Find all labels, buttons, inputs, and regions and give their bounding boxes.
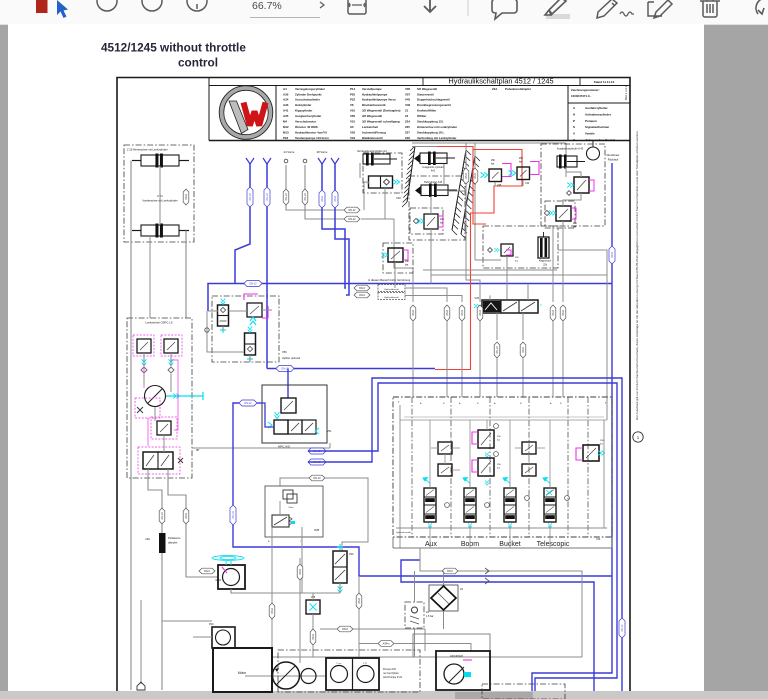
svg-text:Lenkeinheit: Lenkeinheit [362, 125, 378, 129]
svg-text:control: control [178, 56, 218, 70]
valve V45 [489, 169, 502, 182]
svg-text:21: 21 [405, 109, 409, 113]
svg-text:P14: P14 [350, 87, 356, 91]
svg-text:66.7%: 66.7% [252, 0, 282, 12]
svg-text:260: 260 [515, 257, 519, 259]
blue bus DN-10 [267, 368, 435, 370]
dashdot pumps [278, 650, 420, 692]
klapp wires [394, 262, 396, 288]
wire cyl left [130, 161, 132, 319]
svg-text:3/2 Wegeventil: 3/2 Wegeventil [362, 114, 382, 118]
cylinder Z25 [141, 155, 179, 166]
capsule ASPm [378, 641, 394, 647]
capsule DN-10 hpc [309, 475, 325, 481]
V26 wires [489, 296, 491, 301]
spool circles [445, 503, 450, 508]
blue capsule hpc drop [230, 505, 236, 525]
svg-text:Hubzylinder: Hubzylinder [295, 103, 312, 107]
svg-text:22A: 22A [405, 120, 411, 124]
svg-text:P 22: P 22 [363, 663, 368, 665]
svg-text:Rücklauf: Rücklauf [608, 158, 619, 162]
svg-text:DN-10: DN-10 [232, 511, 235, 519]
steering valve 1 [137, 339, 151, 353]
svg-text:A: A [459, 402, 461, 405]
valve V5h check [245, 333, 256, 355]
svg-text:VM5: VM5 [314, 529, 320, 532]
capsule DN-10 a [159, 508, 165, 524]
svg-text:V5h: V5h [282, 350, 287, 354]
svg-text:DN-6: DN-6 [465, 173, 468, 179]
svg-text:DN-6: DN-6 [185, 194, 188, 200]
svg-text:Pumpe P10: Pumpe P10 [383, 668, 397, 671]
pulsation damper 23A [159, 533, 166, 553]
svg-text:Filter: Filter [289, 506, 294, 509]
box Z25 Hinterachse [124, 145, 194, 242]
svg-text:P22: P22 [350, 98, 356, 102]
svg-text:bar: bar [515, 260, 518, 263]
svg-text:V51: V51 [350, 120, 356, 124]
svg-text:DN-8: DN-8 [358, 598, 361, 604]
top wires [412, 142, 566, 144]
svg-text:DN-6: DN-6 [312, 634, 315, 640]
svg-text:Hydraulikmotor 4cm³/U: Hydraulikmotor 4cm³/U [295, 130, 327, 134]
suction box [413, 634, 490, 657]
svg-text:Steckkupplung 12L: Steckkupplung 12L [417, 120, 444, 124]
svg-text:5/2 Wegeventil: 5/2 Wegeventil [417, 87, 437, 91]
blue line A [235, 163, 250, 284]
svg-text:A: A [268, 540, 270, 543]
svg-text:D: D [540, 304, 542, 307]
wire t1 down [466, 184, 480, 302]
svg-text:A: A [420, 402, 422, 405]
svg-text:M 13: M 13 [216, 579, 222, 582]
svg-text:22k: 22k [543, 264, 548, 267]
capsule DN-8 b1 [410, 305, 416, 321]
svg-text:Lenkeinheit OSPC LS: Lenkeinheit OSPC LS [145, 321, 172, 325]
end valve 230bar [583, 445, 599, 461]
svg-text:3/2 Wegeventil (Drehzapfen): 3/2 Wegeventil (Drehzapfen) [362, 109, 401, 113]
steering valve 2 [164, 339, 178, 353]
valve block frame [393, 397, 612, 537]
box Klappmotor [483, 226, 558, 268]
svg-text:250: 250 [519, 158, 524, 160]
steering check X [137, 407, 143, 413]
svg-text:H: H [573, 112, 575, 116]
svg-text:Druckbegrenzungsventil: Druckbegrenzungsventil [417, 103, 451, 107]
svg-text:bar: bar [497, 439, 500, 442]
blue line low2 [401, 560, 594, 691]
svg-text:bar: bar [600, 443, 603, 446]
spool Telescopic [544, 488, 556, 522]
svg-text:M12: M12 [283, 125, 289, 129]
svg-text:A34: A34 [283, 98, 289, 102]
svg-text:DN-6: DN-6 [447, 570, 453, 573]
A33 wires [430, 196, 432, 214]
svg-text:DN-10: DN-10 [304, 193, 307, 201]
svg-text:Hydraulikölpumpe Verza: Hydraulikölpumpe Verza [362, 98, 396, 102]
svg-text:V46: V46 [405, 103, 411, 107]
filter 24 [429, 585, 458, 611]
svg-text:Kippzylinder: Kippzylinder [295, 109, 313, 113]
capsule DN-6 left [183, 189, 189, 205]
svg-text:Hinterachse mit Lenkzylinder: Hinterachse mit Lenkzylinder [417, 125, 458, 129]
Wacker Neuson logo [222, 88, 271, 137]
blue capsule D [332, 190, 338, 208]
HPC valve row [274, 420, 288, 434]
svg-text:DN-10: DN-10 [249, 193, 252, 201]
svg-text:Klappmotor: Klappmotor [539, 260, 551, 263]
blue bottom capsule [619, 618, 625, 638]
wire a40 down [552, 321, 554, 397]
svg-text:A30: A30 [283, 92, 289, 96]
svg-text:V51: V51 [327, 430, 332, 433]
blue capsule A [247, 187, 253, 207]
steering spool [143, 452, 173, 469]
svg-text:DN-8: DN-8 [299, 569, 302, 575]
svg-text:2A: 2A [426, 611, 429, 614]
M13 wires [231, 589, 313, 593]
svg-text:V05: V05 [405, 87, 411, 91]
svg-text:DN-6: DN-6 [334, 196, 337, 202]
svg-text:250: 250 [497, 436, 501, 438]
box Hydraulikventil 1 [378, 285, 405, 292]
svg-text:Blatt 1 von 1: Blatt 1 von 1 [624, 85, 628, 100]
valve V5h pilot [247, 303, 262, 317]
valve V44 [517, 167, 530, 180]
valve A40b [545, 201, 575, 228]
capsule DN-8 b3 [459, 305, 465, 321]
box V30 [363, 153, 402, 193]
svg-text:DN-12: DN-12 [245, 402, 253, 405]
svg-text:V2b: V2b [596, 538, 601, 541]
svg-text:Ausfahrzylinder: Ausfahrzylinder [585, 106, 609, 110]
V30 wires [359, 163, 361, 178]
HPC pilot [281, 398, 296, 413]
svg-text:227: 227 [405, 130, 410, 134]
svg-text:4512/1245 without throttle: 4512/1245 without throttle [101, 41, 246, 55]
A40 wires [565, 167, 567, 177]
svg-text:A: A [550, 402, 552, 405]
svg-text:DN-10: DN-10 [285, 193, 288, 201]
motor box [213, 648, 272, 692]
steering diamond L [141, 367, 147, 373]
svg-text:bar: bar [497, 467, 500, 470]
sheet mark circled 1 [633, 432, 643, 442]
svg-text:V50: V50 [350, 114, 356, 118]
svg-text:250: 250 [497, 464, 501, 466]
blue return [532, 163, 612, 691]
blue HPC drop [287, 369, 289, 399]
V50 wires [339, 583, 341, 593]
svg-text:DN-8: DN-8 [522, 347, 525, 353]
svg-text:Z 25 Hinterachse mit Lenkzylin: Z 25 Hinterachse mit Lenkzylinder [127, 148, 168, 152]
capsule DN-8 b2 [444, 305, 450, 321]
svg-text:24 Vorne: 24 Vorne [284, 150, 295, 154]
steering relief [157, 421, 171, 435]
svg-text:Doppelrückschlagventil: Doppelrückschlagventil [417, 98, 450, 102]
svg-text:24: 24 [460, 587, 463, 591]
svg-text:Ausschubzylinder: Ausschubzylinder [295, 98, 321, 102]
blue line B [266, 163, 268, 369]
svg-text:225: 225 [405, 125, 410, 129]
cylinder A4 [363, 154, 390, 164]
blue right pair [308, 448, 326, 454]
blue capsule DN-10 bus [276, 366, 294, 372]
pump main [273, 662, 300, 689]
P20 wire [193, 636, 212, 638]
svg-text:DN-6: DN-6 [204, 570, 210, 573]
capsule DN-12 f [344, 216, 360, 222]
svg-text:Der Ausdruck gilt nur mit dem: Der Ausdruck gilt nur mit dem Sachnummer… [635, 130, 639, 420]
svg-text:A41: A41 [431, 170, 436, 173]
svg-text:Hydraulikventil: Hydraulikventil [384, 288, 399, 291]
svg-text:V30: V30 [396, 196, 401, 200]
svg-text:Telescopic: Telescopic [537, 541, 570, 548]
blue capsule hpc-in [239, 400, 257, 406]
blue bus DN-12 [208, 284, 612, 312]
svg-text:DN-12: DN-12 [349, 209, 357, 212]
valve A40a [574, 177, 589, 193]
svg-text:Hydraulikschaltplan 4512 / 124: Hydraulikschaltplan 4512 / 1245 [448, 77, 553, 86]
capsule DN-8 a40b [560, 305, 566, 321]
svg-text:ASPm: ASPm [383, 643, 390, 646]
svg-text:1.5 bar: 1.5 bar [426, 615, 434, 618]
toolbar icons [36, 0, 766, 19]
svg-text:Steuerventil: Steuerventil [417, 92, 434, 96]
VM5 valve [272, 515, 289, 527]
wire pump line [148, 478, 162, 690]
svg-text:DN-8: DN-8 [611, 252, 614, 258]
spool Boom [464, 488, 476, 522]
valve A33 relief [410, 208, 443, 234]
svg-text:Hydraulikventil: Hydraulikventil [384, 296, 399, 299]
svg-text:0P: 0P [196, 448, 200, 452]
svg-text:260: 260 [573, 223, 578, 225]
svg-text:B: B [477, 403, 479, 405]
svg-text:DN-6: DN-6 [359, 294, 365, 297]
svg-text:S: S [573, 125, 575, 129]
spool Aux [424, 488, 436, 522]
svg-text:DN-12: DN-12 [621, 624, 624, 632]
svg-text:Inchventil/Vorzug: Inchventil/Vorzug [362, 130, 386, 134]
valve V28 [306, 600, 320, 614]
valve V50 [333, 551, 347, 583]
capsule DN-6 M13 [199, 568, 215, 574]
box A41 A33 [409, 176, 465, 240]
capsule DN-8 a40a [550, 305, 556, 321]
svg-text:DN-8: DN-8 [446, 310, 449, 316]
svg-text:240: 240 [405, 261, 410, 263]
svg-text:24: 24 [405, 114, 409, 118]
svg-text:23A: 23A [145, 537, 150, 541]
2A wires [414, 571, 416, 602]
svg-text:DN-8: DN-8 [552, 310, 555, 316]
capsule DN-6 vm5 [269, 603, 275, 619]
valve 2A [405, 602, 424, 628]
svg-text:DN-6: DN-6 [321, 196, 324, 202]
svg-text:Verstellpumpe: Verstellpumpe [362, 87, 382, 91]
wire t2 down [474, 184, 476, 260]
svg-text:DN-6: DN-6 [271, 608, 274, 614]
svg-text:Zeichnungsnummer:: Zeichnungsnummer: [571, 88, 600, 92]
svg-text:Ausgleichszylinder A 40: Ausgleichszylinder A 40 [557, 148, 584, 151]
box Pumpe P18 [326, 658, 379, 690]
svg-text:DN-6: DN-6 [185, 513, 188, 519]
svg-text:DN-8: DN-8 [461, 310, 464, 316]
wire tank left [130, 318, 132, 690]
V30 down wires [385, 219, 413, 302]
motor M13 [218, 565, 245, 589]
wire hv out [405, 288, 447, 302]
wire measure [140, 600, 142, 684]
svg-text:Hydraulikölpumpe: Hydraulikölpumpe [362, 92, 388, 96]
capsule DN-6 hv2 [354, 292, 370, 298]
svg-text:Ventile: Ventile [585, 132, 595, 136]
svg-text:M13: M13 [283, 130, 289, 134]
svg-text:wird Pumpe P 22: wird Pumpe P 22 [383, 676, 403, 679]
svg-text:Verbindung mit Lenkzylinder: Verbindung mit Lenkzylinder [417, 136, 457, 140]
svg-text:DN-10: DN-10 [496, 346, 499, 354]
svg-text:Zylinder Drehpunkt: Zylinder Drehpunkt [295, 92, 322, 96]
valve V5h reducer [218, 305, 229, 326]
wire v26 down [496, 358, 498, 397]
svg-text:T: T [398, 401, 400, 404]
valve V26 [482, 300, 538, 313]
valve V30 [369, 176, 393, 188]
svg-text:V57: V57 [405, 92, 411, 96]
svg-text:V45: V45 [405, 98, 411, 102]
svg-text:nur bei Option: nur bei Option [383, 672, 399, 675]
svg-text:DN-10: DN-10 [314, 477, 322, 480]
box ASV [436, 651, 490, 690]
svg-text:DN-8: DN-8 [479, 310, 482, 316]
svg-text:Pumpen: Pumpen [585, 119, 597, 123]
svg-text:Ausgleichszylinder: Ausgleichszylinder [295, 114, 322, 118]
svg-text:bar: bar [440, 222, 444, 225]
svg-text:DN-12: DN-12 [349, 218, 357, 221]
capsule DN-6 hv1 [354, 285, 370, 291]
capsule DN-6 t2 [472, 168, 478, 184]
svg-text:Kraftstofffilter: Kraftstofffilter [417, 109, 437, 113]
svg-text:DN-6: DN-6 [474, 173, 477, 179]
svg-text:Motor: Motor [238, 671, 247, 675]
svg-text:B: B [560, 403, 562, 405]
svg-text:M4: M4 [283, 120, 287, 124]
box V5h [212, 296, 279, 362]
blue capsule B [264, 187, 270, 207]
capsule V28 out [310, 629, 316, 645]
svg-text:1000247371-0..: 1000247371-0.. [571, 94, 591, 98]
svg-text:Blattkleinventil: Blattkleinventil [362, 136, 383, 140]
svg-text:Ölfilter: Ölfilter [417, 114, 427, 118]
svg-text:dämpfer: dämpfer [168, 541, 178, 545]
capsule DN-6 b [183, 508, 189, 524]
svg-text:V50: V50 [349, 553, 354, 556]
svg-text:Verriegelungszylinder A4: Verriegelungszylinder A4 [357, 149, 387, 153]
dashbox bottom right [482, 684, 565, 699]
svg-text:bar: bar [405, 264, 409, 267]
svg-text:Hubzylinder A33: Hubzylinder A33 [424, 181, 443, 184]
capsule DN-8 p1 [297, 564, 303, 580]
steering diamond R [168, 367, 174, 373]
svg-text:Pulsations-: Pulsations- [168, 536, 181, 540]
svg-text:S3: S3 [350, 125, 354, 129]
svg-text:A: A [494, 402, 496, 405]
svg-text:Verriegelungszylinder: Verriegelungszylinder [295, 87, 326, 91]
svg-text:228: 228 [405, 136, 410, 140]
svg-text:P xxx: P xxx [337, 663, 342, 665]
title block grid [209, 85, 630, 87]
svg-text:DN-12: DN-12 [250, 283, 258, 286]
svg-text:In diesem Bereich hohe Verrohr: In diesem Bereich hohe Verrohrung [368, 278, 411, 282]
svg-text:P18: P18 [283, 136, 289, 140]
wire cyl mid [159, 166, 161, 225]
valve 240bar [383, 243, 413, 273]
box Hydraulikventil 2 [378, 293, 405, 300]
svg-text:ASV/P2226: ASV/P2226 [450, 655, 464, 658]
svg-text:V26: V26 [475, 297, 480, 300]
svg-text:A35: A35 [283, 114, 289, 118]
box VM5 [265, 486, 323, 537]
svg-text:250: 250 [491, 160, 496, 162]
svg-text:DN-10: DN-10 [161, 512, 164, 520]
steering wires [143, 353, 145, 366]
svg-text:DN-10: DN-10 [266, 193, 269, 201]
wires into block [412, 321, 414, 397]
steering magenta net [143, 360, 145, 388]
svg-text:Jedes andere Bauteil: Jedes andere Bauteil [585, 138, 615, 142]
svg-text:P: P [573, 119, 575, 123]
tele pilots [522, 442, 536, 454]
svg-text:260: 260 [440, 219, 445, 221]
wire bottom bus [272, 656, 582, 658]
svg-text:bar: bar [491, 163, 495, 166]
svg-text:HPC A/S: HPC A/S [278, 445, 290, 449]
wire LS line [168, 478, 218, 577]
capsule DN-12 e [344, 207, 360, 213]
block gallery [400, 419, 607, 421]
valve 22k pilot [501, 244, 513, 256]
capsule DN-8 p3 [337, 626, 353, 632]
capsule DN-8 b4 [477, 305, 483, 321]
capsule DN-8 p2 [356, 593, 362, 609]
svg-text:V10: V10 [350, 109, 356, 113]
svg-text:Hyflow, optional: Hyflow, optional [282, 356, 301, 360]
anchor hatch right [452, 150, 466, 230]
anchor hatch left [407, 146, 415, 202]
svg-text:DN-6: DN-6 [359, 287, 365, 290]
svg-text:DN-8: DN-8 [562, 310, 565, 316]
svg-text:Stand 11.11.10: Stand 11.11.10 [594, 80, 615, 84]
cylinder A40 [557, 156, 577, 167]
svg-text:22A: 22A [492, 87, 498, 91]
steering pump [145, 386, 166, 407]
block bottom band [393, 547, 612, 549]
blue capsule C [319, 190, 325, 208]
block inner wires [429, 420, 431, 488]
svg-text:B: B [443, 403, 445, 405]
box HPC [262, 385, 327, 443]
wire cyl right [185, 231, 187, 319]
svg-text:V: V [573, 132, 575, 136]
svg-text:Ölmotor 40 OMS: Ölmotor 40 OMS [295, 125, 318, 129]
capsule DN-6 t1 [463, 168, 469, 184]
svg-text:Aux: Aux [425, 541, 438, 548]
svg-text:Tandempumpe 11/11ccm: Tandempumpe 11/11ccm [295, 136, 329, 140]
svg-text:Steckkupplung 18 L: Steckkupplung 18 L [417, 130, 445, 134]
svg-text:P20: P20 [350, 92, 356, 96]
svg-text:bar: bar [573, 226, 577, 229]
